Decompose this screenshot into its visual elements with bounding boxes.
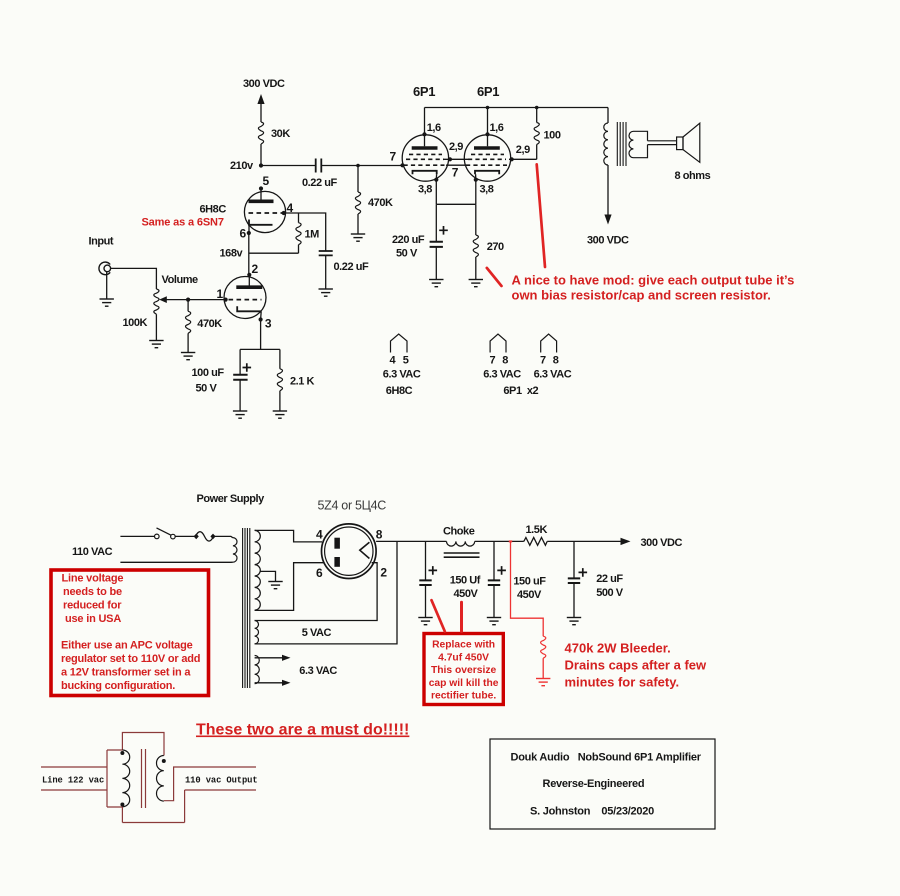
capacitor 220 uF 50 V xyxy=(435,204,437,241)
wire B+ bus to output tubes xyxy=(425,107,609,109)
bucking transformer primary coil xyxy=(122,750,129,807)
svg-text:110 VAC: 110 VAC xyxy=(72,546,113,558)
svg-text:Drains caps after a few: Drains caps after a few xyxy=(565,658,708,673)
red note box: replace cap xyxy=(424,634,503,705)
svg-text:6.3 VAC: 6.3 VAC xyxy=(299,665,337,677)
svg-text:2,9: 2,9 xyxy=(516,144,530,156)
svg-text:2,9: 2,9 xyxy=(449,141,463,153)
svg-text:300 VDC: 300 VDC xyxy=(587,235,629,247)
wire 6.3VAC bottom tap xyxy=(255,682,284,684)
resistor 2.1 K xyxy=(279,349,281,368)
ground (100K pot) xyxy=(149,341,163,348)
heater pins 6P1 a xyxy=(490,334,506,353)
svg-text:bucking configuration.: bucking configuration. xyxy=(61,680,175,692)
svg-text:5Z4 or 5Ц4C: 5Z4 or 5Ц4C xyxy=(318,499,387,513)
speaker 8 ohms xyxy=(677,137,683,150)
output transformer T2 secondary xyxy=(629,131,648,157)
wire 210v node to coupling cap xyxy=(261,165,315,167)
capacitor 150 uF 450V (second) xyxy=(493,541,495,579)
svg-text:These two are a must do!!!!!: These two are a must do!!!!! xyxy=(196,722,409,739)
bucking transformer secondary coil xyxy=(157,756,164,802)
svg-text:100K: 100K xyxy=(123,317,148,329)
wire pin3 to cathode network xyxy=(240,320,280,350)
svg-text:22 uF: 22 uF xyxy=(596,573,623,585)
svg-text:reduced for: reduced for xyxy=(63,600,122,612)
wire pin6 down to pin2 (168v node) xyxy=(248,233,250,275)
output transformer T2 primary xyxy=(607,108,609,124)
svg-text:5: 5 xyxy=(263,174,270,188)
inductor Choke xyxy=(447,541,475,546)
ground (cap 2) xyxy=(487,618,501,625)
wire HV centre tap to ground xyxy=(260,571,275,581)
red pointer line (cap1) xyxy=(432,600,445,631)
svg-text:6.3 VAC: 6.3 VAC xyxy=(534,369,572,381)
svg-text:a 12V transformer set in a: a 12V transformer set in a xyxy=(61,667,191,679)
wire 30K to 210v node xyxy=(260,144,262,166)
svg-text:220 uF: 220 uF xyxy=(392,234,425,246)
red pointer line (screen node) xyxy=(537,164,545,267)
svg-text:110 vac Output: 110 vac Output xyxy=(185,776,258,786)
svg-text:1M: 1M xyxy=(305,229,320,241)
svg-text:6.3 VAC: 6.3 VAC xyxy=(383,369,421,381)
svg-text:4.7uf 450V: 4.7uf 450V xyxy=(438,652,489,663)
svg-text:use in USA: use in USA xyxy=(65,613,121,625)
transformer T1 core xyxy=(243,528,250,688)
svg-text:1: 1 xyxy=(217,287,224,301)
svg-text:3: 3 xyxy=(265,317,272,331)
svg-text:150 uF: 150 uF xyxy=(513,576,546,588)
svg-text:100 uF: 100 uF xyxy=(192,367,225,379)
svg-text:50 V: 50 V xyxy=(196,383,218,395)
wire pin4 to right xyxy=(284,213,326,251)
capacitor 0.22 uF (tone) xyxy=(319,251,333,255)
wire switch to fuse xyxy=(175,535,195,537)
wire HV bottom tap to pin 6 xyxy=(255,563,324,611)
svg-text:6H8C: 6H8C xyxy=(200,204,227,216)
fuse F1 xyxy=(196,532,214,541)
svg-text:6P1: 6P1 xyxy=(477,84,499,99)
resistor 1.5K xyxy=(524,538,547,546)
wire screens V2-V3 xyxy=(444,158,468,160)
svg-text:1.5K: 1.5K xyxy=(526,524,548,536)
ground (2.1K) xyxy=(273,411,287,418)
svg-text:2: 2 xyxy=(380,566,387,580)
svg-text:A nice to have mod: give each: A nice to have mod: give each output tub… xyxy=(512,273,795,288)
wire HV top tap to pin 4 xyxy=(255,530,322,542)
resistor 270 (cathode bias) xyxy=(475,204,477,235)
svg-text:rectifier tube.: rectifier tube. xyxy=(431,691,496,702)
svg-text:8: 8 xyxy=(376,528,383,542)
svg-text:8: 8 xyxy=(502,355,508,367)
heater pins 6H8C xyxy=(391,334,408,353)
svg-text:Input: Input xyxy=(89,236,114,248)
svg-text:1,6: 1,6 xyxy=(427,122,441,134)
svg-text:7: 7 xyxy=(390,150,397,164)
resistor 100 (screen) xyxy=(535,106,539,110)
node screens to 100 ohm xyxy=(509,158,537,160)
svg-text:Replace with: Replace with xyxy=(432,640,495,651)
svg-text:0.22 uF: 0.22 uF xyxy=(302,177,337,189)
svg-text:100: 100 xyxy=(544,130,561,142)
svg-text:450V: 450V xyxy=(517,589,542,601)
red note box: line voltage xyxy=(51,570,209,696)
svg-text:Reverse-Engineered: Reverse-Engineered xyxy=(543,778,645,790)
svg-text:30K: 30K xyxy=(271,128,290,140)
svg-text:Either use an APC voltage: Either use an APC voltage xyxy=(61,640,193,652)
svg-text:0.22 uF: 0.22 uF xyxy=(334,261,369,273)
wire cathode A to pin6 node xyxy=(248,225,250,233)
svg-text:4: 4 xyxy=(316,528,323,542)
red pointer line (cap2) xyxy=(460,602,463,631)
resistor 470K (grid leak) xyxy=(356,164,360,168)
transformer T1 primary winding xyxy=(233,538,237,563)
ground (100uF) xyxy=(233,411,247,418)
wire 168v node to 1M bottom xyxy=(249,252,299,254)
svg-text:8: 8 xyxy=(553,355,559,367)
svg-text:168v: 168v xyxy=(220,248,244,260)
capacitor 100 uF 50 V xyxy=(239,349,241,374)
resistor 1M xyxy=(298,213,300,223)
ground (bleeder, red) xyxy=(536,679,550,686)
svg-text:This oversize: This oversize xyxy=(431,665,497,676)
title block xyxy=(490,739,715,829)
svg-text:50 V: 50 V xyxy=(396,248,418,260)
svg-text:Douk Audio NobSound 6P1 Ampl: Douk Audio NobSound 6P1 Amplifier xyxy=(511,752,702,764)
svg-text:450V: 450V xyxy=(454,588,479,600)
svg-text:1,6: 1,6 xyxy=(490,122,504,134)
svg-text:3,8: 3,8 xyxy=(480,184,494,196)
ground (cap 1) xyxy=(418,618,432,625)
heater pins 6P1 b xyxy=(541,334,557,353)
wire secondary to speaker xyxy=(648,141,677,145)
ground (270) xyxy=(469,280,483,287)
svg-text:6P1 x2: 6P1 x2 xyxy=(503,385,538,397)
capacitor 0.22 uF coupling xyxy=(316,159,322,173)
svg-text:5 VAC: 5 VAC xyxy=(302,627,332,639)
ground (220uF) xyxy=(429,280,443,287)
capacitor 150 Uf 450V (first) xyxy=(425,541,427,579)
svg-text:470K: 470K xyxy=(197,318,222,330)
ground (470K input) xyxy=(181,353,195,360)
wire cathodes bus xyxy=(436,180,476,205)
svg-text:Choke: Choke xyxy=(443,526,475,538)
resistor 470k bleeder (red) xyxy=(509,540,512,542)
svg-text:3,8: 3,8 xyxy=(418,184,432,196)
svg-text:270: 270 xyxy=(487,241,504,253)
wire pin 2 to 5VAC top xyxy=(255,563,378,621)
svg-text:Same as a 6SN7: Same as a 6SN7 xyxy=(142,217,224,229)
svg-text:6.3 VAC: 6.3 VAC xyxy=(483,369,521,381)
svg-text:regulator set to 110V or add: regulator set to 110V or add xyxy=(61,653,200,665)
transformer T1 5VAC winding xyxy=(255,621,259,644)
svg-text:300 VDC: 300 VDC xyxy=(641,537,683,549)
svg-text:Line 122 vac: Line 122 vac xyxy=(42,776,104,786)
capacitor 22 uF 500 V xyxy=(573,541,575,577)
svg-text:150 Uf: 150 Uf xyxy=(450,575,481,587)
wire transformer CT to 300VDC xyxy=(607,165,609,216)
svg-text:300 VDC: 300 VDC xyxy=(243,78,285,90)
svg-text:210v: 210v xyxy=(230,160,254,172)
ground (470K grid leak) xyxy=(351,234,365,241)
tube 6P1 V3 xyxy=(487,108,489,147)
tube 6P1 V2 xyxy=(424,108,426,147)
svg-text:Line voltage: Line voltage xyxy=(62,573,124,585)
resistor 470K (input) xyxy=(186,298,190,302)
svg-text:470K: 470K xyxy=(368,197,393,209)
bucking transformer line wires xyxy=(41,750,122,807)
svg-text:minutes for safety.: minutes for safety. xyxy=(565,675,680,690)
wire grids V2-V3 xyxy=(446,164,466,166)
bucking transformer output wires xyxy=(122,767,256,823)
svg-text:7: 7 xyxy=(540,355,546,367)
wire jack to volume pot xyxy=(111,268,157,289)
svg-text:Volume: Volume xyxy=(162,274,199,286)
wire fuse to primary xyxy=(214,536,233,537)
svg-text:5: 5 xyxy=(403,355,409,367)
transformer T1 HV secondary xyxy=(255,530,261,610)
svg-text:2: 2 xyxy=(252,262,259,276)
svg-text:6: 6 xyxy=(316,566,323,580)
switch SW1 xyxy=(120,535,154,537)
svg-text:6: 6 xyxy=(240,227,247,241)
transformer T1 6.3VAC winding xyxy=(255,656,260,684)
wire B+ rail xyxy=(376,540,621,542)
wire coupling cap to 6P1 grids xyxy=(322,165,403,167)
bucking transformer core xyxy=(142,749,146,808)
red pointer line (bias resistor) xyxy=(487,268,502,286)
wire 5VAC bottom to pin 8 node xyxy=(255,541,397,644)
svg-text:needs to be: needs to be xyxy=(63,586,122,598)
svg-text:6P1: 6P1 xyxy=(413,84,435,99)
svg-text:8 ohms: 8 ohms xyxy=(675,170,711,182)
svg-text:4: 4 xyxy=(390,355,397,367)
wire 6.3VAC top tap xyxy=(255,657,284,659)
bucking transformer series link xyxy=(122,733,164,756)
svg-text:470k 2W Bleeder.: 470k 2W Bleeder. xyxy=(565,641,671,656)
svg-text:500 V: 500 V xyxy=(596,587,624,599)
ground (0.22uF) xyxy=(319,289,333,296)
ground (jack) xyxy=(106,272,108,299)
svg-text:7: 7 xyxy=(490,355,496,367)
resistor 30K xyxy=(258,122,263,144)
svg-text:6H8C: 6H8C xyxy=(386,385,413,397)
tube 6H8C section A (upper triode) xyxy=(244,191,285,232)
svg-text:S. Johnston 05/23/2020: S. Johnston 05/23/2020 xyxy=(530,806,654,818)
ground (cap 3) xyxy=(567,618,581,625)
ground (HV centre tap) xyxy=(268,582,282,589)
node 300 VDC output arrow xyxy=(621,538,631,545)
svg-text:2.1 K: 2.1 K xyxy=(290,376,315,388)
svg-text:Power Supply: Power Supply xyxy=(197,493,266,505)
svg-text:own bias resistor/cap and scre: own bias resistor/cap and screen resisto… xyxy=(512,288,771,303)
svg-text:7: 7 xyxy=(452,166,459,180)
svg-text:cap wil kill the: cap wil kill the xyxy=(429,678,499,689)
